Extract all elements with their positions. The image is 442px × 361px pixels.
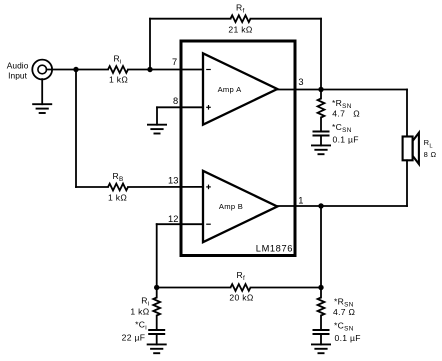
wire: jack shield stem — [41, 79, 43, 104]
node: pin 1 output junction — [318, 203, 323, 208]
svg-text:20 kΩ: 20 kΩ — [229, 292, 253, 302]
svg-text:8: 8 — [173, 96, 178, 106]
wire: feedback riser up from pin 7 node — [149, 19, 151, 70]
wire: speaker bottom lead — [406, 160, 408, 206]
resistor Rf 20 kOhm (Amp B feedback) — [229, 270, 253, 302]
wire: audio jack to input resistor Ri — [47, 69, 109, 71]
capacitor CSN 0.1 uF (Amp B snubber) — [313, 321, 361, 345]
wire: top feedback horizontal (left of Rf) — [150, 18, 231, 20]
node: pin 12 / bottom feedback junction — [154, 285, 159, 290]
svg-text:7: 7 — [172, 57, 177, 67]
capacitor CSN 0.1 uF (Amp A snubber) — [313, 122, 359, 145]
svg-text:Audio: Audio — [7, 61, 29, 71]
wire: RB row from input junction — [76, 186, 108, 188]
ground (Ci) — [147, 344, 167, 353]
resistor Ri 1 kOhm (Amp B, to Ci) — [130, 288, 160, 331]
ground (Amp B snubber) — [311, 344, 331, 353]
wire: top feedback horizontal (right of Rf) — [251, 18, 322, 20]
node: input junction — [73, 67, 78, 72]
svg-text:3: 3 — [298, 77, 303, 87]
wire: pin 12 (Amp B inverting) out and down — [157, 224, 203, 287]
resistor Rf 21 kOhm (Amp A feedback) — [228, 2, 252, 34]
ground (pin 8) — [147, 125, 167, 134]
svg-text:1 kΩ: 1 kΩ — [108, 192, 127, 202]
capacitor Ci 22 uF — [122, 319, 166, 344]
audio input jack J1 — [7, 60, 52, 81]
pin 7 label — [172, 57, 177, 67]
svg-text:4.7 Ω: 4.7 Ω — [332, 109, 360, 119]
pin 12 label — [168, 214, 179, 224]
pin 8 label — [173, 96, 178, 106]
resistor RSN 4.7 Ohm (Amp A snubber) — [318, 90, 361, 132]
ground (Amp A snubber) — [311, 145, 331, 154]
svg-text:LM1876: LM1876 — [256, 243, 293, 253]
svg-text:22 µF: 22 µF — [122, 333, 146, 343]
svg-text:13: 13 — [168, 176, 179, 186]
svg-text:0.1 µF: 0.1 µF — [333, 135, 359, 145]
node: pin 3 output junction — [318, 87, 323, 92]
resistor RB 1 kOhm (Amp B input) — [108, 171, 128, 203]
svg-text:Amp B: Amp B — [219, 202, 243, 211]
pin 13 label — [168, 176, 179, 186]
node: bottom feedback / snubber junction — [318, 285, 323, 290]
op-amp U1A Amp A — [203, 53, 277, 124]
resistor Ri 1 kOhm (input, Amp A) — [108, 53, 128, 84]
svg-text:12: 12 — [168, 214, 179, 224]
wire: RB to pin 13 (Amp B non-inverting input) — [128, 186, 203, 188]
node: pin 7 / top feedback junction — [147, 67, 152, 72]
wire: input junction down to RB — [75, 70, 77, 188]
op-amp IC U1 LM1876 package outline — [181, 41, 295, 256]
wire: pin 8 (Amp A non-inverting) to ground stub — [157, 107, 203, 124]
svg-text:8 Ω: 8 Ω — [424, 150, 437, 159]
svg-text:1: 1 — [298, 195, 303, 205]
svg-text:Input: Input — [8, 70, 28, 80]
wire: Ri to pin 7 (Amp A inverting input) — [128, 69, 203, 71]
svg-text:1 kΩ: 1 kΩ — [109, 75, 128, 85]
wire: speaker top lead — [406, 90, 408, 137]
wire: pin 1 output to speaker — [277, 205, 407, 207]
wire: top feedback drop to pin 3 node — [320, 19, 322, 90]
svg-text:0.1 µF: 0.1 µF — [335, 333, 361, 343]
svg-text:Amp A: Amp A — [218, 85, 243, 94]
pin 1 label — [298, 195, 303, 205]
speaker RL 8 Ohm — [403, 133, 437, 164]
svg-text:21 kΩ: 21 kΩ — [228, 24, 252, 34]
wire: pin 1 node down to bottom feedback node — [320, 206, 322, 288]
svg-text:4.7 Ω: 4.7 Ω — [333, 307, 356, 317]
ground (input jack) — [32, 104, 52, 113]
wire: bottom feedback (right of Rf) — [251, 287, 322, 289]
pin 3 label — [298, 77, 303, 87]
svg-text:1 kΩ: 1 kΩ — [130, 307, 149, 317]
wire: bottom feedback (left of Rf) — [157, 287, 231, 289]
wire: pin 3 output to speaker — [277, 89, 407, 91]
resistor RSN 4.7 Ohm (Amp B snubber) — [318, 288, 356, 331]
op-amp U1B Amp B — [203, 171, 277, 242]
